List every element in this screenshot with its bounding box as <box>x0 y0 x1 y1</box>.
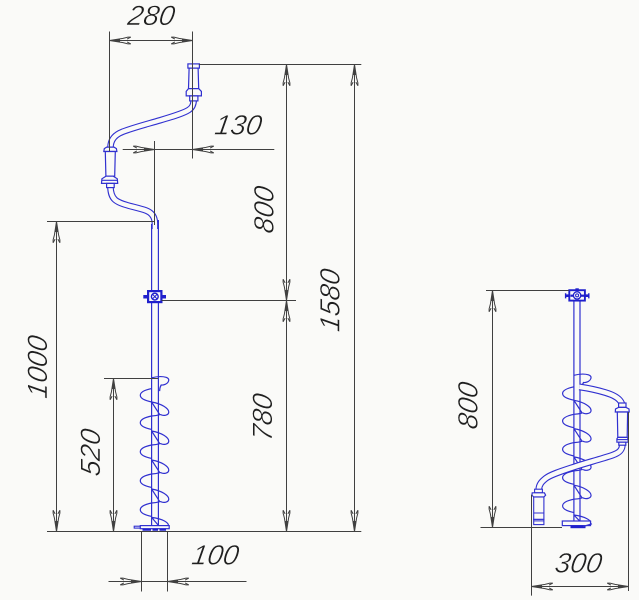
dimension line 300 <box>532 583 629 590</box>
dimension line 520 <box>110 379 117 532</box>
cutting blade (folded view) <box>571 524 593 527</box>
cutting blades (main view) <box>143 528 167 530</box>
svg-text:780: 780 <box>247 391 278 443</box>
cutting head plate (main view) <box>134 526 169 529</box>
svg-text:100: 100 <box>190 540 242 571</box>
dimension line 280 <box>110 37 193 44</box>
extension line at lock <box>162 300 297 302</box>
extension line left of 280 <box>109 32 111 152</box>
ground reference line <box>47 531 361 533</box>
auger shaft tube (main view) <box>152 220 159 526</box>
dimension line 800 (folded view) <box>489 291 496 528</box>
dimension line 1580 <box>351 65 358 532</box>
extension line lock level (folded view) <box>486 290 569 292</box>
extension line handle top <box>199 64 361 66</box>
upper crank tube (main view) <box>111 100 194 147</box>
svg-text:1000: 1000 <box>22 333 53 401</box>
auger shaft tube (folded view) <box>574 301 580 522</box>
svg-text:280: 280 <box>125 0 178 31</box>
extension line left of 100 <box>141 532 143 592</box>
dimension line 1000 <box>53 222 60 532</box>
dimension line 780 <box>283 301 290 532</box>
right folded grip (folded view) <box>615 403 629 445</box>
label 780 <box>247 391 278 443</box>
auger spiral flighting (main view) <box>140 377 168 526</box>
dimension line 100 <box>109 578 247 585</box>
extension line left of 300 <box>531 495 533 596</box>
extension line right of 280 <box>192 32 194 159</box>
upper folded tube (folded view) <box>579 387 622 407</box>
dimension line 800 (main) <box>283 65 290 301</box>
left folded grip (folded view) <box>532 489 546 524</box>
extension line right of 300 <box>628 412 630 591</box>
label 1000 <box>22 333 53 401</box>
lower crank tube (main view) <box>110 187 154 230</box>
shaft centerline <box>154 141 156 225</box>
svg-text:130: 130 <box>213 110 265 141</box>
svg-text:300: 300 <box>553 548 605 579</box>
extension line top of 1000 <box>47 221 154 223</box>
upper handle grip (main view) <box>186 64 201 101</box>
locking collar with wing bolt (folded view) <box>565 288 589 300</box>
svg-text:520: 520 <box>75 426 106 478</box>
label 130 <box>213 110 265 141</box>
dimension line 130 <box>123 146 275 153</box>
auger spiral flighting (folded view) <box>563 374 591 522</box>
label 280 <box>125 0 178 31</box>
cutting head plate (folded view) <box>562 521 590 526</box>
label 100 <box>190 540 242 571</box>
extension line right of 100 <box>167 532 169 592</box>
locking collar with wing bolt (main view) <box>143 291 166 302</box>
ground line (folded view) <box>481 527 563 529</box>
label 300 <box>553 548 605 579</box>
label 800 (main) <box>249 183 280 235</box>
label 1580 <box>315 266 346 334</box>
lower folded tube (folded view) <box>539 445 623 490</box>
lower handle grip (main view) <box>102 147 118 187</box>
svg-text:800: 800 <box>249 183 280 235</box>
svg-text:800: 800 <box>452 379 483 431</box>
svg-text:1580: 1580 <box>315 266 346 334</box>
extension line top of 520 <box>104 378 158 380</box>
label 520 <box>75 426 106 478</box>
label 800 (folded view) <box>452 379 483 431</box>
